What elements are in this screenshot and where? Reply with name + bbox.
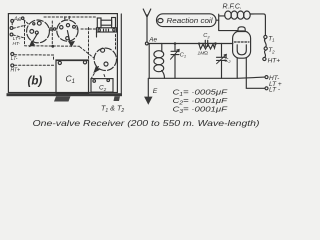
terminal Ae [145,37,157,45]
wire diagonal to valve [80,47,94,58]
svg-text:C1: C1 [180,53,186,59]
valve (top view, dashed) [94,48,116,70]
svg-text:HT+: HT+ [268,58,281,65]
wire reaction coil stub [216,19,219,21]
terminal LT+ [10,27,21,43]
wire left drop [148,44,150,79]
wire bus across panel [25,45,80,47]
junction between dials [51,45,54,48]
valve grid (dashed) [234,41,249,43]
terminal LT- [265,86,281,93]
wire between dials [51,21,53,46]
terminal Ae [11,16,24,23]
svg-text:HT-: HT- [13,41,21,47]
wire LT- run [15,55,54,60]
panel foot left [54,96,71,101]
transformer T (top right) [97,18,117,38]
capacitor C2 box [91,79,113,93]
wire vertical mid [88,28,90,60]
svg-text:R.F.C.: R.F.C. [223,4,242,11]
resistor R1 1 megohm grid leak [198,44,216,56]
dial 2 pins [60,24,76,40]
panel foot right [114,96,121,101]
terminal HT+ [263,57,280,64]
dial 2 top mark [65,17,69,20]
wire anode [219,14,238,30]
wire vertical left [24,21,26,45]
wire filament left leg [236,58,238,78]
dial 2 / valve holder (top view, dashed) [57,20,78,41]
valve filament [237,45,246,55]
panel bottom edge [7,93,123,96]
svg-text:LT-: LT- [11,56,18,62]
svg-text:T1 & T2: T1 & T2 [101,104,124,114]
wire holder to transformer [81,28,96,30]
ground E (earth arrow) [144,78,158,105]
reaction coil L2 [157,14,217,27]
terminal HT- [10,33,20,47]
svg-text:Reaction coil: Reaction coil [167,18,214,25]
variable capacitor C2 [217,44,232,79]
valve pins [101,48,108,66]
terminal LT- [11,53,18,62]
wire transformer to valve [115,35,117,51]
svg-text:(b): (b) [28,76,43,88]
svg-text:1MΩ: 1MΩ [198,50,209,56]
svg-text:E: E [153,88,158,95]
wire top bus [148,43,233,45]
wire bottom bus [149,77,265,78]
svg-text:Ae: Ae [148,37,157,44]
variable capacitor C1 [171,44,187,79]
dial 2 pointer [67,31,75,48]
wire top run [44,16,96,18]
wire HT+ run [15,64,56,66]
holder terminals pair [50,28,56,30]
svg-text:Ae: Ae [13,16,22,23]
svg-text:LT -: LT - [269,86,281,93]
svg-text:C3: C3 [203,33,210,39]
wire LT+ to dial [13,25,25,28]
phones cord T1-T2 [264,39,266,47]
capacitor C3 [199,33,216,46]
dial 1 pointer [29,34,38,48]
cord T2 to HT+ [265,50,266,57]
condenser dial 1 (top view, dashed) [27,20,50,43]
capacitor C1 box [56,60,89,93]
terminal T2 [264,47,275,54]
terminal HT- / LT+ [265,75,282,88]
panel front edge line [120,14,122,93]
dial 1 pins [30,21,41,34]
svg-text:C2: C2 [224,58,231,64]
wire Ae down [11,23,13,27]
node grid-leak left [198,42,200,44]
layout panel outline (b) [8,14,117,93]
wire filament right leg [246,58,265,88]
dashed wiring [12,17,115,79]
wire Ae to dial [24,20,30,25]
tuning coil L1 [154,44,165,79]
svg-text:HT+: HT+ [11,68,21,74]
valve V1 envelope [233,27,251,58]
wire valve to C2 box [92,67,99,79]
terminal T1 [264,35,275,42]
svg-text:One-valve Receiver (200 to 550: One-valve Receiver (200 to 550 m. Wave-l… [33,119,260,128]
valve pointer [93,66,100,74]
wire RFC to T1 [250,14,265,36]
antenna Ae [143,9,151,42]
node C1 tap [174,42,177,45]
wire HT- to dial [13,35,24,38]
RFC choke [223,4,251,20]
node grid junction [214,42,217,45]
terminal HT+ [11,64,21,74]
